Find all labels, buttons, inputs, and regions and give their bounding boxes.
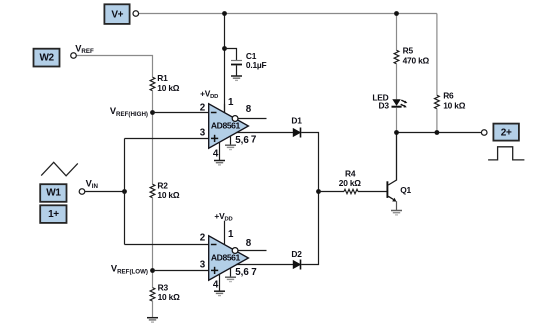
svg-text:+VDD: +VDD (214, 211, 232, 223)
svg-text:1+: 1+ (48, 209, 59, 220)
wire: R5 to LED (396, 64, 398, 100)
svg-text:7: 7 (251, 135, 257, 146)
wire: C1 branch (225, 49, 237, 61)
wire: top V+ rail (139, 13, 437, 15)
svg-text:R1: R1 (157, 73, 168, 83)
svg-text:470 kΩ: 470 kΩ (403, 55, 430, 65)
svg-text:R6: R6 (443, 91, 454, 101)
resistor R3 (150, 288, 155, 302)
node: rail/U1 supply junction (222, 11, 227, 16)
node VIN junction (122, 189, 127, 194)
terminal VIN (79, 189, 85, 195)
ground R3 (147, 318, 158, 322)
node: rail R5 junction (394, 11, 399, 16)
node: collector/LED junction (394, 130, 399, 135)
ground U1 pin4 (214, 161, 225, 165)
waveform: square wave icon (488, 147, 524, 160)
resistor R2 (150, 184, 155, 198)
ground U1 pin5,6 (225, 145, 236, 149)
wire: U1 pin4 (219, 142, 221, 160)
svg-text:R2: R2 (157, 180, 168, 190)
wire: VREF from W2 (76, 56, 152, 78)
svg-text:5,6: 5,6 (235, 135, 249, 146)
wire: U2 pin7 out to D2 (236, 264, 293, 266)
wire: U1 pin5,6 (230, 136, 232, 145)
node VREF(LOW) (150, 268, 155, 273)
svg-text:D1: D1 (291, 116, 302, 126)
op-amp U1 AD8561 (200, 88, 257, 159)
svg-text:1: 1 (228, 229, 234, 240)
svg-text:W1: W1 (46, 187, 61, 198)
diode D1 (291, 116, 302, 138)
wire: D2 to summing node (301, 192, 318, 265)
W2 box (34, 49, 60, 67)
wire: U1 pin3 input (125, 138, 209, 140)
1+ box (40, 205, 66, 223)
V+ box (104, 4, 129, 24)
transistor Q1 (387, 133, 411, 211)
svg-text:2+: 2+ (501, 128, 512, 139)
svg-text:VIN: VIN (86, 179, 99, 191)
wire: U2 pin2 input (125, 244, 209, 246)
node VREF(HIGH) (150, 110, 155, 115)
node: R6 junction (435, 130, 440, 135)
wire: R2 to R3 (152, 198, 154, 288)
wire: rail corner to R6 (436, 14, 438, 96)
terminal 2+ (481, 130, 487, 136)
svg-text:VREF(LOW): VREF(LOW) (111, 263, 148, 275)
resistor R5 (394, 50, 399, 64)
wire: output line to 2+ (397, 132, 482, 134)
wire: vertical input bus (124, 139, 126, 245)
wire: U1 pin8 stub (238, 118, 267, 120)
wire: R3 to ground (152, 301, 154, 318)
svg-text:V+: V+ (111, 9, 123, 20)
svg-text:10 kΩ: 10 kΩ (443, 100, 466, 110)
svg-text:3: 3 (200, 127, 206, 138)
svg-text:8: 8 (246, 238, 252, 249)
svg-text:VREF: VREF (75, 43, 94, 55)
wire: R6 to output node (436, 109, 438, 133)
ground C1 (231, 76, 242, 80)
svg-text:1: 1 (228, 97, 234, 108)
LED D3 (372, 92, 407, 110)
svg-text:4: 4 (213, 149, 219, 160)
svg-text:10 kΩ: 10 kΩ (158, 292, 181, 302)
wire: U2 pin8 stub (238, 250, 267, 252)
svg-text:4: 4 (213, 280, 219, 291)
wire: R1 to R2 (152, 91, 154, 185)
resistor R4 (319, 191, 345, 193)
svg-text:20 kΩ: 20 kΩ (339, 178, 362, 188)
svg-text:2: 2 (200, 233, 206, 244)
wire: U2 pin5,6 (230, 268, 232, 277)
ground U2 pin4 (214, 291, 225, 295)
svg-text:5,6: 5,6 (235, 267, 249, 278)
ground Q1 (391, 211, 402, 215)
svg-text:+VDD: +VDD (200, 88, 218, 100)
ground U2 pin5,6 (225, 277, 236, 281)
svg-text:Q1: Q1 (400, 185, 411, 195)
svg-text:10 kΩ: 10 kΩ (157, 190, 180, 200)
wire: U2 pin4 (219, 274, 221, 291)
resistor R6 (435, 95, 440, 109)
resistor R1 (150, 77, 155, 91)
svg-text:R5: R5 (403, 45, 414, 55)
waveform: triangle wave icon (41, 162, 78, 176)
svg-text:D2: D2 (291, 249, 302, 259)
svg-text:AD8561: AD8561 (211, 120, 241, 130)
terminal V+ (133, 11, 139, 17)
wire: U1 pin7 out to D1 (236, 132, 293, 134)
wire: VREF(LOW) to U2 pin3 (153, 270, 209, 272)
wire: vertical supply to U1 pin1 (224, 14, 226, 113)
wire: LED to output node (396, 108, 398, 133)
svg-text:AD8561: AD8561 (211, 253, 241, 263)
wire: VIN to junction (85, 191, 125, 193)
terminal VREF (71, 53, 77, 59)
svg-text:VREF(HIGH): VREF(HIGH) (110, 106, 148, 118)
svg-text:2: 2 (200, 102, 206, 113)
svg-text:10 kΩ: 10 kΩ (157, 83, 180, 93)
node: C1 tap junction (222, 46, 227, 51)
svg-text:R4: R4 (345, 168, 356, 178)
svg-text:3: 3 (200, 260, 206, 271)
node: diode summing junction (316, 189, 321, 194)
svg-text:W2: W2 (39, 52, 54, 63)
2+ box (493, 124, 519, 141)
wire: VREF(HIGH) to U1 pin2 (153, 112, 209, 114)
svg-text:8: 8 (246, 104, 252, 115)
svg-text:7: 7 (251, 267, 257, 278)
W1 box (40, 184, 66, 202)
op-amp U2 AD8561 (200, 211, 257, 291)
wire: rail to R5 (396, 14, 398, 51)
svg-text:0.1µF: 0.1µF (246, 60, 267, 70)
wire: D1 to summing node (301, 133, 318, 192)
capacitor C1 (231, 60, 242, 62)
svg-text:D3: D3 (378, 101, 389, 111)
diode D2 (291, 249, 302, 270)
